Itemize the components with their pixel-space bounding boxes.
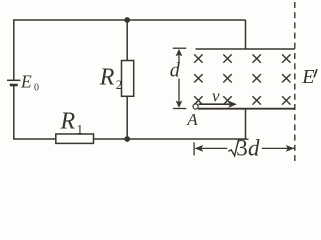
- svg-text:3: 3: [236, 136, 248, 161]
- svg-text:0: 0: [34, 83, 39, 94]
- svg-text:1: 1: [77, 122, 84, 137]
- svg-text:E: E: [301, 66, 314, 88]
- svg-text:R: R: [60, 109, 76, 135]
- svg-text:2: 2: [116, 77, 123, 92]
- svg-text:d: d: [248, 136, 260, 161]
- svg-text:A: A: [186, 110, 198, 129]
- svg-text:d: d: [170, 60, 181, 82]
- svg-text:E: E: [20, 71, 32, 91]
- svg-text:R: R: [99, 64, 115, 90]
- svg-text:v: v: [212, 86, 220, 105]
